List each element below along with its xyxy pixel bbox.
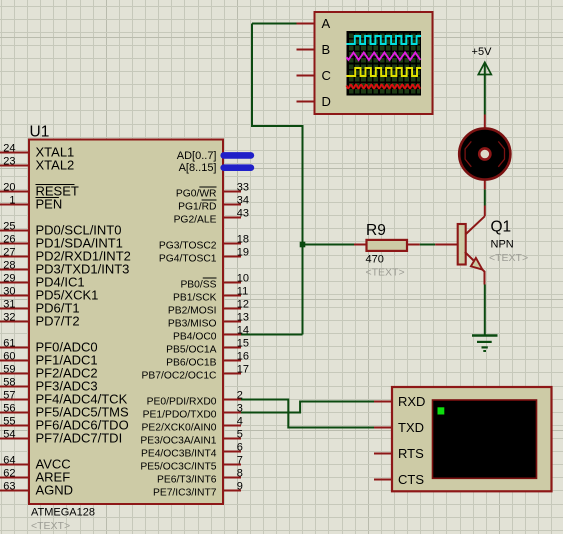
svg-text:PE4/OC3B/INT4: PE4/OC3B/INT4 [141,448,217,459]
svg-text:60: 60 [3,350,15,362]
svg-text:5: 5 [237,428,243,440]
svg-text:6: 6 [237,441,243,453]
svg-text:PG0/WR: PG0/WR [176,188,217,199]
svg-text:PB2/MOSI: PB2/MOSI [168,305,217,316]
svg-text:9: 9 [237,480,243,492]
svg-text:PEN: PEN [36,197,63,212]
svg-text:R9: R9 [366,222,386,239]
svg-text:4: 4 [237,415,243,427]
svg-text:PB6/OC1B: PB6/OC1B [166,357,216,368]
svg-text:24: 24 [3,142,15,154]
svg-text:3: 3 [237,402,243,414]
svg-text:PG1/RD: PG1/RD [178,201,216,212]
svg-text:TXD: TXD [398,420,424,435]
svg-text:61: 61 [3,337,15,349]
svg-text:PD7/T2: PD7/T2 [36,314,80,329]
svg-text:59: 59 [3,363,15,375]
svg-text:RXD: RXD [398,394,425,409]
svg-text:27: 27 [3,246,15,258]
svg-text:PB5/OC1A: PB5/OC1A [166,344,216,355]
svg-text:PB3/MISO: PB3/MISO [168,318,217,329]
svg-text:33: 33 [237,181,249,193]
svg-text:PB4/OC0: PB4/OC0 [173,331,217,342]
svg-text:62: 62 [3,467,15,479]
svg-text:56: 56 [3,402,15,414]
svg-text:26: 26 [3,233,15,245]
svg-text:AD[0..7]: AD[0..7] [177,150,217,162]
svg-text:PE0/PDI/RXD0: PE0/PDI/RXD0 [147,396,217,407]
svg-text:20: 20 [3,181,15,193]
svg-text:PB1/SCK: PB1/SCK [173,292,217,303]
svg-text:19: 19 [237,246,249,258]
svg-text:B: B [322,42,331,57]
svg-text:18: 18 [237,233,249,245]
svg-text:PE7/IC3/INT7: PE7/IC3/INT7 [153,487,217,498]
svg-text:Q1: Q1 [491,219,512,236]
svg-text:2: 2 [237,389,243,401]
svg-text:14: 14 [237,324,249,336]
svg-text:PE3/OC3A/AIN1: PE3/OC3A/AIN1 [140,435,216,446]
svg-text:63: 63 [3,480,15,492]
svg-text:PF7/ADC7/TDI: PF7/ADC7/TDI [36,431,123,446]
svg-text:PG4/TOSC1: PG4/TOSC1 [159,253,217,264]
svg-text:13: 13 [237,311,249,323]
svg-text:C: C [322,68,331,83]
svg-text:<TEXT>: <TEXT> [489,252,528,264]
svg-text:58: 58 [3,376,15,388]
svg-text:PE5/OC3C/INT5: PE5/OC3C/INT5 [140,461,216,472]
svg-text:8: 8 [237,467,243,479]
svg-text:17: 17 [237,363,249,375]
svg-text:12: 12 [237,298,249,310]
svg-text:ATMEGA128: ATMEGA128 [31,507,95,519]
svg-text:<TEXT>: <TEXT> [366,267,405,279]
svg-text:55: 55 [3,415,15,427]
svg-text:43: 43 [237,207,249,219]
svg-text:U1: U1 [30,124,50,141]
svg-text:28: 28 [3,259,15,271]
svg-text:PE2/XCK0/AIN0: PE2/XCK0/AIN0 [142,422,217,433]
svg-text:34: 34 [237,194,249,206]
svg-text:PG2/ALE: PG2/ALE [174,214,217,225]
svg-text:11: 11 [237,285,248,297]
svg-text:15: 15 [237,337,249,349]
svg-text:A: A [322,16,331,31]
svg-text:RTS: RTS [398,446,424,461]
svg-text:23: 23 [3,155,15,167]
svg-text:32: 32 [3,311,15,323]
svg-text:470: 470 [366,254,384,266]
svg-text:7: 7 [237,454,243,466]
svg-text:+5V: +5V [472,46,493,58]
svg-text:PB0/SS: PB0/SS [180,279,216,290]
svg-text:54: 54 [3,428,15,440]
svg-text:25: 25 [3,220,15,232]
svg-text:PE6/T3/INT6: PE6/T3/INT6 [157,474,217,485]
svg-text:30: 30 [3,285,15,297]
svg-text:57: 57 [3,389,15,401]
svg-text:AGND: AGND [36,483,74,498]
svg-text:PG3/TOSC2: PG3/TOSC2 [159,240,217,251]
svg-text:29: 29 [3,272,15,284]
svg-text:31: 31 [3,298,15,310]
svg-text:NPN: NPN [491,239,514,251]
svg-text:PE1/PDO/TXD0: PE1/PDO/TXD0 [143,409,217,420]
svg-text:CTS: CTS [398,472,424,487]
svg-text:10: 10 [237,272,249,284]
svg-text:A[8..15]: A[8..15] [179,162,217,174]
svg-text:D: D [322,94,331,109]
svg-text:16: 16 [237,350,249,362]
svg-text:PB7/OC2/OC1C: PB7/OC2/OC1C [142,370,218,381]
svg-text:XTAL2: XTAL2 [36,158,75,173]
svg-text:<TEXT>: <TEXT> [31,520,70,532]
svg-text:64: 64 [3,454,15,466]
svg-text:1: 1 [9,194,15,206]
